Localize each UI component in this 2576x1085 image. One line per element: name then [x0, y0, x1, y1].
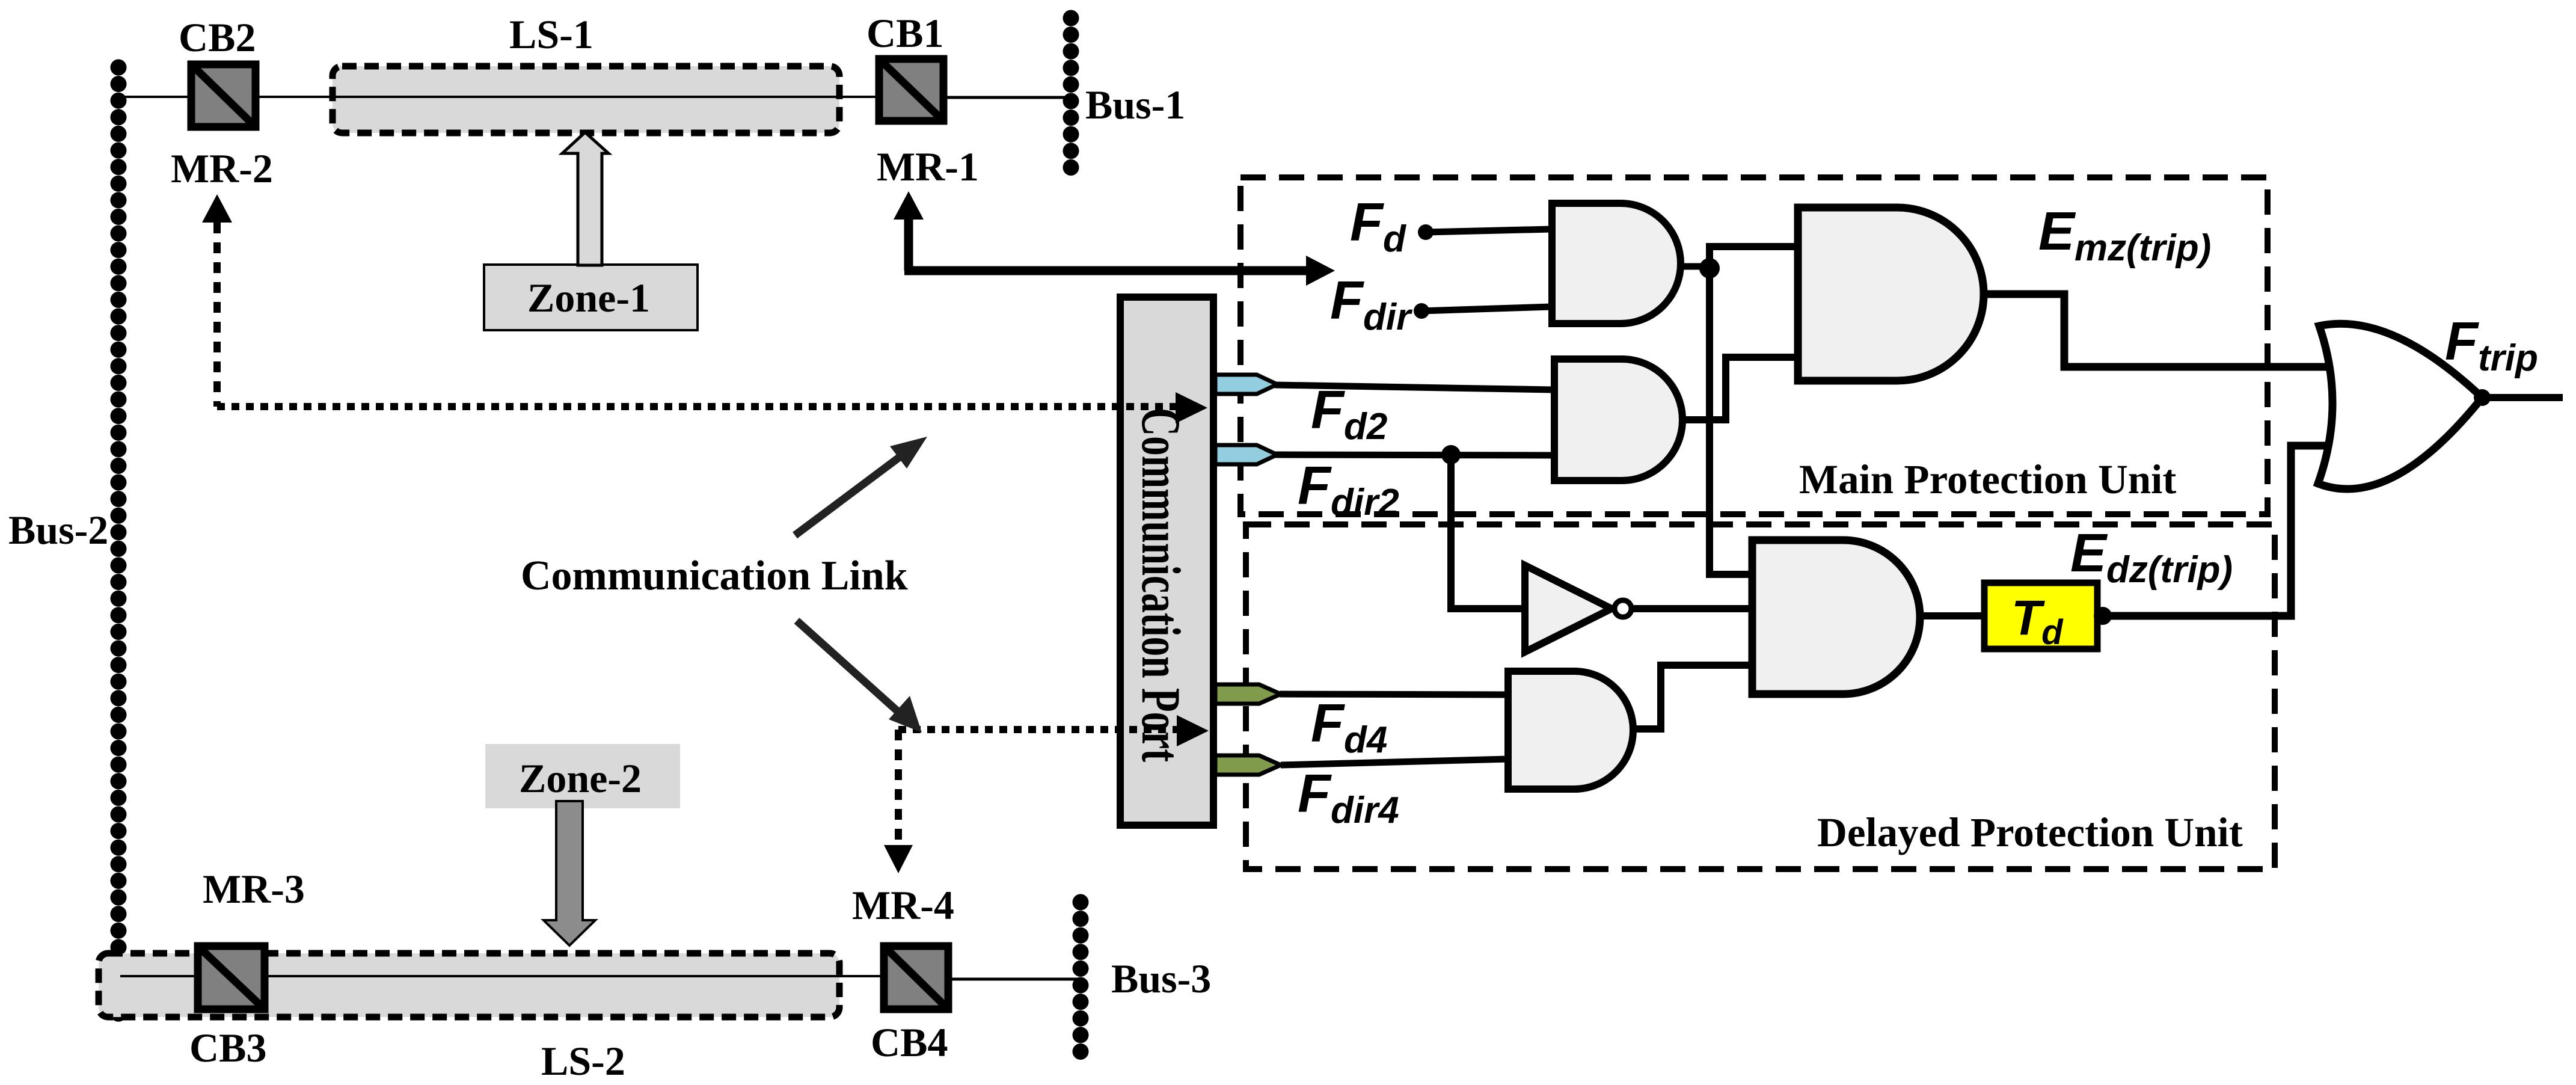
wire U3 output to OR gate U7 [1984, 294, 2341, 367]
svg-text:Bus-1: Bus-1 [1085, 82, 1185, 128]
bus Bus-1 [1063, 18, 1079, 178]
breaker CB4 [884, 946, 948, 1009]
port connector Fd2 (cyan) [1215, 375, 1277, 394]
comm path MR-2: arrowhead up [202, 194, 232, 223]
OR gate U7 [2318, 324, 2482, 489]
comm path MR-4 horizontal dotted wire [898, 726, 1182, 733]
AND gate U3 [1798, 207, 1984, 381]
comm path MR-4 vertical dashed wire [895, 730, 902, 847]
svg-text:Main Protection Unit: Main Protection Unit [1799, 456, 2176, 502]
breaker CB1 [879, 59, 943, 121]
svg-text:Bus-3: Bus-3 [1111, 956, 1211, 1001]
NOT gate U4 [1525, 565, 1612, 652]
AND gate U6 [1508, 671, 1633, 789]
svg-text:Communication Link: Communication Link [521, 553, 908, 599]
wire Ftrip output [2482, 394, 2563, 401]
wire Td to OR gate U7 [2103, 446, 2341, 616]
line section LS-1 [333, 66, 839, 133]
comm path MR-4: arrowhead right into port [1177, 715, 1209, 746]
wire U1 output to node A [1681, 263, 1710, 270]
svg-text:CB4: CB4 [871, 1019, 948, 1065]
breaker CB2 [191, 64, 256, 127]
line section LS-2 [99, 953, 839, 1017]
Communication Port box [1120, 297, 1213, 825]
node Td output dot [2094, 607, 2112, 625]
svg-text:Bus-2: Bus-2 [8, 507, 108, 553]
trip command arrow from logic to MR-1 [894, 191, 1335, 286]
wire U5 output to Td [1920, 612, 1984, 619]
svg-text:LS-1: LS-1 [509, 11, 593, 57]
comm path MR-2 vertical dotted wire [213, 223, 221, 407]
svg-text:LS-2: LS-2 [541, 1038, 625, 1084]
delay block Td [1984, 583, 2097, 649]
svg-text:Communication Port: Communication Port [1130, 408, 1192, 762]
Delayed Protection Unit dashed box [1246, 524, 2275, 869]
node Ftrip output dot [2474, 389, 2491, 406]
wire Fd to U1 [1426, 229, 1551, 232]
wire U2 output to U3 input 2 [1682, 357, 1800, 420]
Zone-2 arrow [544, 801, 595, 945]
wire Fdir2 from port to U2 [1275, 455, 1553, 455]
NOT gate U4 bubble [1615, 600, 1631, 617]
svg-text:MR-1: MR-1 [877, 144, 979, 189]
node Fd terminal dot [1418, 224, 1434, 240]
bus Bus-2 [111, 67, 127, 1025]
svg-text:Zone-2: Zone-2 [519, 755, 642, 801]
Main Protection Unit dashed box [1240, 177, 2268, 514]
svg-text:Delayed Protection Unit: Delayed Protection Unit [1817, 810, 2243, 855]
breaker CB3 [198, 946, 265, 1009]
wire Fd4 from port to U6 [1280, 694, 1508, 695]
comm path MR-2 horizontal dotted wire [217, 403, 1182, 410]
wire through LS-2 [120, 975, 882, 977]
AND gate U5 [1752, 540, 1920, 694]
svg-text:MR-3: MR-3 [203, 866, 305, 912]
port connector Fd4 (olive) [1215, 684, 1281, 704]
wire bus2 to CB2 [120, 96, 191, 98]
wire Fdir to U1 [1421, 307, 1551, 311]
bus Bus-3 [1073, 902, 1089, 1063]
node B junction dot on Fdir2 [1441, 445, 1461, 464]
wire Fdir4 from port to U6 [1281, 759, 1508, 765]
comm path MR-2: arrowhead right into port [1176, 392, 1207, 423]
wire CB4 to Bus-3 [948, 978, 1082, 981]
AND gate U1 [1552, 203, 1681, 324]
wire U6 output to U5 input 3 [1633, 665, 1754, 729]
wire U4 output to U5 input 2 [1631, 605, 1754, 612]
communication link arrow NE [795, 437, 927, 535]
wire Fd2 from port to U2 [1275, 385, 1553, 390]
svg-text:Zone-1: Zone-1 [527, 275, 650, 321]
node Fdir terminal dot [1414, 303, 1429, 319]
svg-text:MR-4: MR-4 [852, 882, 954, 928]
wire node A down to U5 input 1 [1710, 268, 1754, 574]
Zone-1 box [484, 265, 698, 330]
Zone-2 box [485, 744, 680, 808]
node A junction dot [1699, 258, 1720, 278]
wire CB2 to CB1 [256, 96, 877, 98]
Zone-1 arrow [562, 132, 609, 265]
svg-text:MR-2: MR-2 [171, 146, 273, 191]
AND gate U2 [1554, 359, 1682, 481]
comm path MR-4: arrowhead down [884, 845, 913, 873]
wire node A to U3 input 1 [1710, 247, 1800, 268]
port connector Fdir2 (cyan) [1215, 445, 1277, 464]
svg-text:CB3: CB3 [189, 1025, 266, 1071]
wire CB1 to Bus-1 [943, 96, 1072, 99]
communication link arrow SE [797, 621, 922, 733]
svg-text:CB1: CB1 [866, 10, 943, 56]
svg-text:CB2: CB2 [179, 14, 256, 60]
wire node B down to NOT gate U4 [1451, 455, 1525, 609]
port connector Fdir4 (olive) [1215, 755, 1281, 775]
